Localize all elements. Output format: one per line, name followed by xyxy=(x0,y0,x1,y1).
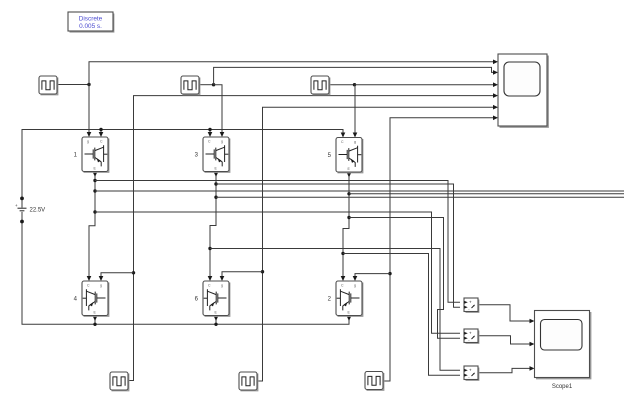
svg-text:Discrete: Discrete xyxy=(79,16,103,23)
node: phase B tap 1 xyxy=(214,182,217,185)
block: pulse generator PG4 xyxy=(110,372,129,391)
wire: M3 output to Scope1 input 3 xyxy=(478,368,530,372)
wire: M1 output to Scope1 input 1 xyxy=(478,305,530,321)
node: junction IGBT6 emitter / DC- bus xyxy=(214,323,217,326)
arrow: Scope1 input 1 xyxy=(530,319,535,324)
wire: phase B tap to M1 minus input xyxy=(216,184,460,307)
arrow: IGBT1 emitter port xyxy=(93,172,98,177)
wire: phase A from IGBT1 emitter down with jog into IGBT4 collector xyxy=(89,172,95,277)
node: phase C tap 1 xyxy=(347,192,350,195)
block: Scope1 (bottom right) xyxy=(535,311,591,391)
node: junction PG5 riser / IGBT6 gate branch xyxy=(261,270,264,273)
block: voltage measurement M2 xyxy=(464,329,479,343)
arrow: IGBT6 emitter port xyxy=(214,316,219,321)
wire: DC+ bus from battery top, along y=129.5, down into IGBT5 collector xyxy=(22,130,343,199)
arrow: IGBT5 emitter port xyxy=(347,173,352,178)
wire: PG5 riser up and right to Scope input 5 xyxy=(256,107,494,381)
block: IGBT 1 xyxy=(74,137,109,172)
wire: PG2 junction up and right, jog to Scope input 2 xyxy=(214,67,494,84)
block: pulse generator PG2 xyxy=(181,76,200,95)
arrow: IGBT1 gate xyxy=(87,132,92,137)
arrow: Scope input 4 xyxy=(493,93,498,98)
arrow: Scope1 input 3 xyxy=(530,366,535,371)
block: IGBT 6 xyxy=(195,281,230,316)
svg-text:0.005 s.: 0.005 s. xyxy=(79,23,102,30)
svg-text:g: g xyxy=(100,284,102,288)
node: junction PG3 output xyxy=(353,83,356,86)
arrow: IGBT3 collector xyxy=(208,132,213,137)
block: IGBT 4 xyxy=(74,281,109,316)
block: pulse generator PG3 xyxy=(311,76,330,95)
block: IGBT 2 xyxy=(328,281,363,316)
arrow: IGBT2 gate xyxy=(353,276,358,281)
node: phase C tap 3 xyxy=(341,252,344,255)
wire: phase A tap to M2 plus input xyxy=(95,212,460,333)
node: junction DC+ bus / IGBT3 collector xyxy=(208,128,211,131)
block: Scope (top right) xyxy=(498,54,548,127)
wire: phase B line to right edge xyxy=(216,196,624,198)
wire: phase A line to right edge xyxy=(95,190,624,192)
node: phase B tap 3 xyxy=(208,247,211,250)
block: voltage measurement M3 xyxy=(464,366,479,380)
arrow: Scope input 6 xyxy=(493,116,498,121)
svg-text:g: g xyxy=(221,284,223,288)
node: junction PG6 riser / IGBT2 gate branch xyxy=(388,272,391,275)
svg-text:g: g xyxy=(221,140,223,144)
arrow: IGBT3 emitter port xyxy=(214,172,219,177)
arrow: IGBT4 collector xyxy=(87,276,92,281)
node: junction PG2 output xyxy=(212,83,215,86)
wire: phase C tap to M3 minus input xyxy=(343,254,460,376)
arrow: IGBT3 gate xyxy=(220,132,225,137)
node: phase A tap 2 xyxy=(93,189,96,192)
svg-text:g: g xyxy=(354,140,356,144)
wire: collector stub IGBT3 xyxy=(209,130,211,134)
wire: PG1 junction down to IGBT1 gate xyxy=(88,85,90,133)
wire: phase C line to right edge xyxy=(349,193,624,195)
wire: emitter stub IGBT6 to DC- bus xyxy=(215,316,217,325)
block: IGBT 3 xyxy=(195,137,230,172)
block: voltage measurement M1 xyxy=(464,298,479,312)
battery: DC voltage source 22.5V xyxy=(15,197,45,224)
wire: PG1 junction up and right to Scope input 1 xyxy=(89,62,494,85)
node: phase A tap 1 xyxy=(93,179,96,182)
wire: PG2 junction right then down to IGBT3 gate xyxy=(214,85,222,133)
arrow: Scope input 2 xyxy=(493,70,498,75)
wire: PG3 junction down to IGBT5 gate xyxy=(354,85,356,134)
svg-text:g: g xyxy=(87,140,89,144)
wire: PG4 riser up and right to Scope input 4 xyxy=(126,96,494,381)
block: IGBT 5 xyxy=(328,138,363,173)
arrow: IGBT6 collector xyxy=(208,276,213,281)
wire: emitter stub IGBT4 to DC- bus xyxy=(94,316,96,325)
svg-text:Scope1: Scope1 xyxy=(552,384,573,390)
wire: PG3 junction right to Scope input 3 xyxy=(355,84,494,86)
wire: phase C tap to M2 minus input xyxy=(349,218,460,339)
arrow: IGBT6 gate xyxy=(220,276,225,281)
wire: PG3 output to junction xyxy=(329,84,355,86)
arrow: IGBT4 gate xyxy=(99,276,104,281)
node: phase B tap 2 xyxy=(214,196,217,199)
node: junction IGBT4 emitter / DC- bus xyxy=(93,323,96,326)
node: junction PG1 output xyxy=(87,83,90,86)
wire: branch to IGBT2 gate xyxy=(355,274,390,277)
wire: collector stub IGBT1 xyxy=(100,130,102,134)
wire: PG2 output to junction xyxy=(199,84,214,86)
wire: phase B from IGBT3 emitter down with jog into IGBT6 collector xyxy=(210,172,216,277)
block: pulse generator PG6 xyxy=(365,372,384,391)
wire: branch to IGBT4 gate xyxy=(101,273,134,277)
node: junction DC+ bus / IGBT1 collector xyxy=(99,128,102,131)
wire: DC- bus from battery bottom along y=324.3 to IGBT2 emitter xyxy=(22,222,349,325)
node: phase C tap 2 xyxy=(347,216,350,219)
svg-text:+: + xyxy=(15,203,18,208)
block: pulse generator PG1 xyxy=(39,76,58,95)
node: junction PG4 riser / IGBT4 gate branch xyxy=(132,271,135,274)
wire: M2 output to Scope1 input 2 xyxy=(478,336,530,344)
arrow: IGBT4 emitter port xyxy=(93,316,98,321)
svg-text:g: g xyxy=(354,284,356,288)
block: Discrete 0.005 s. annotation xyxy=(68,12,114,32)
wire: PG1 output to gate riser junction xyxy=(57,84,89,86)
wire: phase A tap to M1 plus input xyxy=(95,181,460,303)
wire: branch to IGBT6 gate xyxy=(222,272,263,277)
node: phase A tap 3 xyxy=(93,210,96,213)
wire: PG6 riser up and right to Scope input 6 xyxy=(383,118,494,381)
block: pulse generator PG5 xyxy=(239,372,258,391)
arrow: IGBT5 collector xyxy=(341,133,346,138)
arrow: IGBT2 collector xyxy=(341,276,346,281)
arrow: IGBT5 gate xyxy=(353,133,358,138)
arrow: Scope input 1 xyxy=(493,60,498,65)
arrow: IGBT1 collector xyxy=(99,132,104,137)
wire: phase B tap to M3 plus input xyxy=(210,249,460,371)
arrow: Scope input 3 xyxy=(493,82,498,87)
arrow: Scope input 5 xyxy=(493,105,498,110)
arrow: IGBT2 emitter port xyxy=(347,316,352,321)
arrow: Scope1 input 2 xyxy=(530,342,535,347)
wire: phase C from IGBT5 emitter down with jog into IGBT2 collector xyxy=(343,172,349,277)
svg-text:22.5V: 22.5V xyxy=(30,208,46,214)
